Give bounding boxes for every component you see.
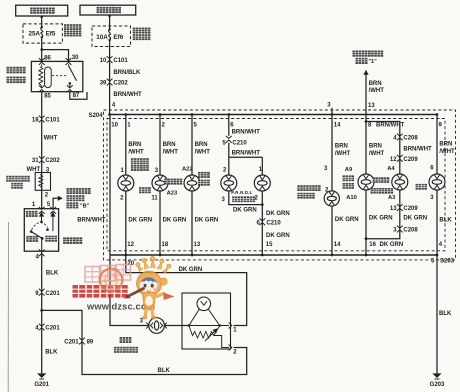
dimmer rheostat (189, 326, 220, 339)
svg-text:C101: C101 (113, 58, 128, 64)
svg-text:DK GRN: DK GRN (163, 218, 187, 224)
svg-text:BRN: BRN (195, 142, 208, 148)
dimmer control switch box (182, 293, 231, 349)
svg-text:C208: C208 (403, 228, 418, 234)
svg-text:BRN: BRN (128, 142, 141, 148)
wire fuse Ef6 down to splice S204 (109, 40, 111, 115)
watermark orange mascot (124, 256, 175, 319)
svg-text:18: 18 (32, 118, 39, 124)
wire FATC branch tee from A/C branch (365, 120, 368, 123)
gear indicator split wire (229, 156, 262, 158)
svg-text:/WHT: /WHT (128, 149, 144, 155)
wire light switch pin 5 to main headlamp relay terminal B (off-page arrow) (53, 198, 60, 209)
svg-text:DK GRN: DK GRN (380, 242, 404, 248)
svg-text:S204: S204 (89, 113, 104, 119)
svg-text:C209: C209 (403, 157, 418, 163)
connector C209 pin 13 (397, 204, 403, 211)
light switch box (24, 209, 58, 252)
wire DK GRN from pin 20 to dimmer switch pin 1 (126, 255, 247, 326)
svg-text:C208: C208 (403, 136, 418, 142)
light switch position label LOW BEAM (45, 236, 57, 242)
svg-text:BRN/BLK: BRN/BLK (113, 70, 141, 76)
svg-text:12: 12 (127, 242, 134, 248)
connector C201 pin 4 (39, 324, 45, 331)
wire fuse Ef5 to relay pins 86 and 30 (41, 37, 43, 60)
dimmer internal wiring triangle (189, 309, 200, 326)
front fog lamp switch terminal 1 label (353, 51, 384, 57)
wire stub from relay pin 87 (70, 92, 87, 100)
svg-text:86: 86 (44, 56, 51, 62)
svg-text:G201: G201 (34, 382, 49, 388)
svg-text:13: 13 (390, 206, 397, 212)
clock illumination lamp (429, 174, 445, 190)
svg-text:G203: G203 (430, 382, 445, 388)
relay pin 30 (66, 58, 72, 65)
svg-text:WHT: WHT (44, 135, 58, 141)
svg-text:C210: C210 (232, 140, 247, 146)
svg-text:/WHT: /WHT (335, 151, 351, 157)
svg-text:/WHT: /WHT (369, 88, 385, 94)
svg-text:C202: C202 (113, 81, 128, 87)
ashtray lamp label (131, 158, 149, 164)
instrument panel A23 label (164, 179, 182, 185)
wire relay 85 to light switch pin 1 (WHT) (41, 92, 43, 209)
wire to front fog lamp switch terminal 1 (off-page arrow) (365, 73, 367, 256)
svg-text:"1": "1" (368, 59, 377, 65)
fuse Ef5 25A (23, 24, 62, 43)
relay pin 85 (39, 85, 45, 92)
battery saver unit (35, 173, 50, 191)
svg-text:BLK: BLK (439, 311, 452, 317)
svg-text:12: 12 (390, 157, 397, 163)
svg-text:BRN/WHT: BRN/WHT (232, 130, 261, 136)
svg-text:10: 10 (100, 58, 107, 64)
dimmer switch illumination lamp (149, 318, 165, 334)
main headlamp relay terminal B label (67, 188, 91, 194)
svg-text:13: 13 (194, 242, 201, 248)
wire branch clock (436, 115, 438, 256)
wire branch 1 (ashtray lamp) (125, 115, 127, 256)
audio illumination lamp (152, 175, 168, 191)
connector C210 pin 6 (259, 218, 265, 225)
wire S203 to ground G203 (BLK) (436, 255, 438, 373)
svg-text:BRN/WHT: BRN/WHT (403, 146, 432, 152)
svg-text:/WHT: /WHT (369, 151, 385, 157)
svg-text:S203: S203 (440, 259, 455, 265)
svg-text:31: 31 (32, 158, 39, 164)
wire lights-on feed to fuse Ef6 (109, 15, 111, 30)
svg-text:15: 15 (266, 242, 273, 248)
svg-text:/WHT: /WHT (163, 149, 179, 155)
engine fuse block label (133, 28, 151, 34)
wire light switch pin 4 to ground G201 (BLK) (41, 251, 43, 373)
light switch output pin 4 (39, 249, 45, 256)
gear lamp merge wires (229, 191, 262, 205)
svg-text:A4: A4 (387, 166, 395, 172)
svg-text:Ef5: Ef5 (46, 31, 56, 38)
svg-text:BRN/WHT: BRN/WHT (113, 92, 142, 98)
relay coil resistor (39, 67, 43, 88)
svg-text:BRN: BRN (439, 142, 452, 148)
svg-text:10: 10 (111, 122, 118, 128)
dimmer switch pin 2 (229, 345, 232, 351)
connector C210 pin 5 (226, 136, 232, 143)
power feed box B+ (battery hot at all times) (16, 5, 68, 16)
svg-text:DK GRN: DK GRN (233, 207, 257, 213)
svg-text:C201: C201 (64, 340, 79, 346)
hold switch illumination lamp (184, 175, 200, 191)
dimmer internal indicator lamp (197, 297, 211, 311)
A/C switch label (343, 175, 354, 181)
connector C201 pin 89 (79, 338, 85, 345)
svg-text:C201: C201 (45, 291, 60, 297)
svg-text:BLK: BLK (46, 271, 59, 277)
harness pin 3 stub for hazard branch (331, 108, 333, 115)
gear indicator lamp right (254, 175, 270, 191)
light switch position label OFF (26, 236, 38, 242)
svg-text:P.R.N.D.L: P.R.N.D.L (231, 190, 252, 195)
connector C209 pin 12 (397, 155, 403, 162)
svg-text:DK GRN: DK GRN (266, 233, 290, 239)
splice S204 bus (110, 114, 437, 116)
svg-text:DK GRN: DK GRN (128, 218, 152, 224)
splice to dimmer ground branch (40, 309, 43, 312)
svg-text:DK GRN: DK GRN (179, 267, 203, 273)
wire branch 4 (gear indicator lamps) (228, 115, 230, 136)
svg-text:25A: 25A (28, 31, 40, 38)
inner dashed instrument panel box (107, 119, 445, 251)
connector C202 pin 39 (107, 79, 113, 86)
svg-text:85: 85 (44, 94, 51, 100)
watermark pink outlined characters (85, 265, 131, 283)
hazard warning switch lamp (324, 191, 339, 206)
svg-text:BRN: BRN (369, 81, 382, 87)
svg-text:C210: C210 (266, 221, 281, 227)
ashtray illumination lamp (118, 175, 134, 191)
svg-text:BRN: BRN (369, 144, 382, 150)
wire dimmer lamp into dimmer box (164, 325, 189, 327)
connector C101 pin 10 (107, 56, 113, 63)
connector C101 pin 18 (39, 116, 45, 123)
svg-text:BLK: BLK (158, 368, 171, 374)
dimmer switch pin 1 (229, 323, 232, 329)
svg-text:/WHT: /WHT (195, 149, 211, 155)
connector C202 pin 31 (39, 156, 45, 163)
connector C208 pin 3 (397, 226, 403, 233)
FATC label (373, 177, 390, 183)
svg-text:Ef6: Ef6 (113, 34, 123, 41)
svg-text:C209: C209 (403, 206, 418, 212)
wire branch 3 (hold switch lamp) (191, 115, 193, 256)
svg-text:89: 89 (87, 340, 94, 346)
dimmer rheostat wiper arrow (205, 330, 217, 342)
illumination lamp relay label (7, 67, 26, 74)
svg-text:18: 18 (162, 242, 169, 248)
svg-text:16: 16 (369, 242, 376, 248)
ground G203 (432, 373, 441, 379)
svg-text:A23: A23 (167, 191, 178, 197)
svg-text:13: 13 (368, 103, 375, 109)
hold switch label (198, 172, 210, 178)
svg-text:BLK: BLK (45, 350, 58, 356)
audio label (139, 187, 151, 193)
svg-text:14: 14 (334, 122, 341, 128)
relay pin 86 (39, 58, 45, 65)
svg-text:14: 14 (334, 242, 341, 248)
svg-text:11: 11 (151, 196, 158, 202)
svg-text:BRN/WHT: BRN/WHT (232, 150, 261, 156)
svg-text:BRN/WHT: BRN/WHT (77, 218, 106, 224)
wire BRN/WHT from pin 10 to dimmer lamp (110, 115, 148, 326)
illumination lamp relay box (31, 61, 82, 91)
light switch internal contacts (41, 213, 43, 222)
hazard warning lamp switch label (297, 185, 320, 191)
watermark red text weiku (73, 285, 128, 298)
engine fuse block label (64, 24, 81, 30)
wire from battery feed to fuse Ef5 (41, 16, 43, 27)
svg-text:DK GRN: DK GRN (335, 217, 359, 223)
svg-text:"B": "B" (80, 204, 90, 210)
connector C201 pin 9 (39, 289, 45, 296)
svg-text:DK GRN: DK GRN (369, 216, 393, 222)
svg-text:39: 39 (100, 81, 107, 87)
light switch position label ILLUM (26, 211, 38, 217)
connector C208 pin 4 (397, 134, 403, 141)
fuse Ef6 10A (92, 26, 131, 47)
dimmer control switch label (120, 337, 132, 343)
FATC illumination lamp (392, 174, 408, 190)
svg-text:C101: C101 (45, 118, 60, 124)
outer dashed harness box (104, 110, 456, 260)
wire branch 5 (hazard switch lamp) (331, 115, 333, 256)
svg-text:DK GRN: DK GRN (403, 216, 427, 222)
svg-text:10A: 10A (96, 34, 108, 41)
svg-text:DK GRN: DK GRN (195, 218, 219, 224)
light switch label (63, 237, 82, 244)
svg-text:C201: C201 (45, 326, 60, 332)
svg-text:/WHT: /WHT (439, 149, 455, 155)
relay pin 87 (67, 85, 73, 92)
svg-text:A3: A3 (388, 195, 396, 201)
relay mechanical link (dashed) (52, 75, 67, 77)
splice S203 bus (110, 254, 437, 256)
wire branch 2 (audio lamp) (159, 115, 161, 256)
relay coil (45, 67, 52, 88)
wire ground branch to dimmer switch pin 2 (42, 310, 247, 374)
svg-text:BRN: BRN (335, 144, 348, 150)
gear indicator lamp left (221, 175, 237, 191)
clock label (416, 184, 427, 190)
svg-text:87: 87 (73, 93, 80, 99)
battery saver label (6, 176, 30, 182)
svg-text:A10: A10 (346, 195, 357, 201)
A/C switch illumination lamp (358, 174, 374, 190)
svg-text:DK GRN: DK GRN (266, 211, 290, 217)
svg-text:A22: A22 (182, 166, 193, 172)
power feed box (hot with lights on) (80, 5, 136, 15)
svg-text:C202: C202 (45, 158, 60, 164)
svg-text:A9: A9 (345, 167, 353, 173)
watermark red stamp circle (100, 269, 123, 292)
scan artifact edge line (7, 222, 9, 392)
ground G201 (37, 373, 46, 379)
svg-text:BLK: BLK (439, 218, 452, 224)
dimmer wire to pin 2 (214, 336, 229, 348)
svg-text:30: 30 (72, 55, 79, 61)
relay switch contact (68, 64, 70, 65)
svg-text:BRN: BRN (163, 142, 176, 148)
